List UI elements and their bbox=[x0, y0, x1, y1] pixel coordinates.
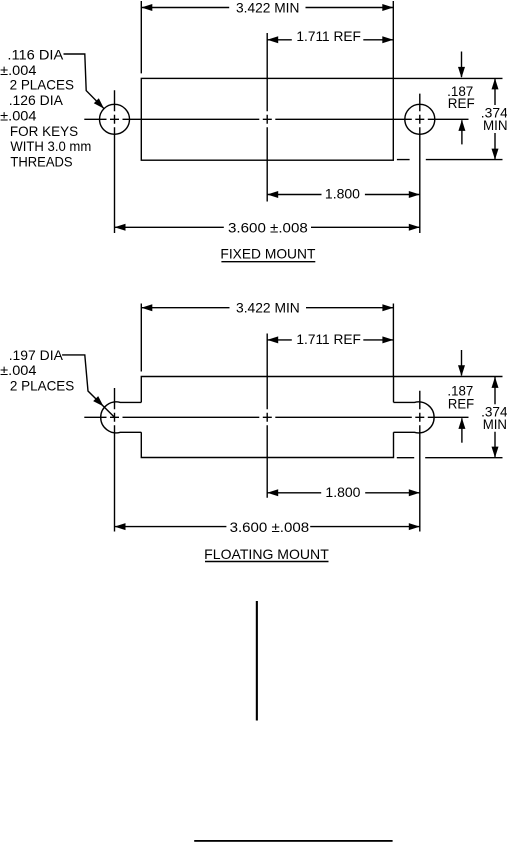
fixed 1.800 dimension line bbox=[267, 194, 420, 196]
svg-text:FOR KEYS: FOR KEYS bbox=[10, 123, 78, 139]
floating mount left slot vertical centerline bbox=[114, 388, 116, 532]
svg-text:FIXED MOUNT: FIXED MOUNT bbox=[220, 246, 315, 262]
floating leader line from .197 DIA note bbox=[62, 355, 114, 417]
floating mount left slot tab bbox=[101, 402, 142, 433]
svg-text:3.600 ±.008: 3.600 ±.008 bbox=[230, 519, 310, 535]
floating .187 arrows bbox=[458, 365, 465, 376]
floating mount right slot tab bbox=[394, 402, 435, 433]
lower separator vertical line bbox=[256, 601, 258, 721]
fixed .187 REF upper arrow stem bbox=[461, 52, 463, 78]
svg-text:MIN: MIN bbox=[483, 117, 507, 133]
floating mount body outline bbox=[141, 377, 393, 458]
floating mount horizontal centerline bbox=[84, 416, 468, 418]
fixed leader line from .116 DIA note bbox=[64, 54, 105, 109]
fixed mount horizontal centerline bbox=[84, 118, 468, 120]
svg-text:1.800: 1.800 bbox=[325, 484, 360, 500]
floating 3.600 arrows bbox=[115, 523, 126, 530]
svg-text:REF: REF bbox=[448, 95, 475, 111]
fixed mount title underline bbox=[221, 261, 315, 263]
floating 3.422 dim extension lines bbox=[141, 304, 393, 377]
fixed 3.422 dim extension lines bbox=[141, 1, 393, 78]
floating 3.422 dimension line bbox=[141, 307, 393, 309]
floating top edge extension line bbox=[394, 376, 503, 378]
fixed 3.422 arrows bbox=[141, 4, 152, 11]
floating 1.711 dimension line bbox=[267, 339, 393, 341]
fixed mount left hole vertical centerline bbox=[114, 90, 116, 233]
floating .187 REF lower arrow stem bbox=[461, 418, 463, 442]
fixed leader arrowhead bbox=[94, 98, 104, 108]
fixed .374 MIN dimension line bbox=[494, 78, 496, 159]
fixed .187 REF lower arrow stem bbox=[461, 120, 463, 144]
floating bottom edge extension line bbox=[397, 457, 503, 459]
svg-text:FLOATING MOUNT: FLOATING MOUNT bbox=[204, 546, 329, 562]
fixed 1.800 arrows bbox=[267, 191, 278, 198]
svg-text:3.422 MIN: 3.422 MIN bbox=[236, 300, 300, 316]
floating .374 arrows bbox=[492, 377, 499, 388]
svg-text:.116 DIA: .116 DIA bbox=[7, 47, 63, 63]
fixed mount left key hole bbox=[100, 104, 130, 134]
fixed mount right hole vertical centerline bbox=[419, 94, 421, 233]
svg-text:±.004: ±.004 bbox=[0, 107, 37, 123]
white gaps behind dimension texts bbox=[224, 1, 507, 534]
floating 3.422 arrows bbox=[141, 304, 152, 311]
svg-text:1.800: 1.800 bbox=[325, 186, 360, 202]
fixed mount right key hole bbox=[405, 104, 435, 134]
floating leader arrowhead bbox=[93, 396, 103, 406]
floating mount title underline bbox=[205, 561, 329, 563]
fixed 3.600 dimension line bbox=[115, 226, 420, 228]
svg-text:.197 DIA: .197 DIA bbox=[9, 347, 64, 363]
svg-text:2 PLACES: 2 PLACES bbox=[10, 77, 74, 93]
fixed 1.711 dimension line bbox=[267, 39, 393, 41]
fixed bottom edge extension line bbox=[397, 159, 503, 161]
svg-text:±.004: ±.004 bbox=[0, 362, 37, 378]
svg-text:2 PLACES: 2 PLACES bbox=[10, 377, 74, 393]
svg-text:3.422 MIN: 3.422 MIN bbox=[236, 0, 299, 16]
floating mount right slot vertical centerline bbox=[419, 391, 421, 532]
svg-text:REF: REF bbox=[448, 396, 474, 412]
arrowheads bbox=[93, 4, 498, 530]
bottom rule line bbox=[194, 840, 392, 842]
fixed .374 arrows bbox=[492, 78, 499, 89]
floating .187 REF upper arrow stem bbox=[461, 350, 463, 375]
fixed mount center vertical centerline bbox=[266, 33, 268, 202]
floating .374 MIN dimension line bbox=[494, 377, 496, 457]
svg-text:THREADS: THREADS bbox=[10, 153, 72, 169]
floating 3.600 dimension line bbox=[115, 526, 420, 528]
floating 1.800 arrows bbox=[267, 489, 278, 496]
fixed 1.711 arrows bbox=[267, 36, 278, 43]
svg-text:3.600 ±.008: 3.600 ±.008 bbox=[228, 220, 308, 236]
floating 1.800 dimension line bbox=[267, 492, 420, 494]
fixed mount body outline bbox=[141, 78, 393, 160]
svg-text:.126 DIA: .126 DIA bbox=[9, 92, 64, 108]
svg-text:1.711 REF: 1.711 REF bbox=[296, 331, 361, 347]
fixed .187 arrows bbox=[458, 67, 465, 78]
floating mount center vertical centerline bbox=[266, 334, 268, 498]
fixed 3.600 arrows bbox=[115, 224, 126, 231]
fixed top edge extension line bbox=[393, 77, 502, 79]
fixed 3.422 dimension line bbox=[141, 7, 393, 9]
svg-text:MIN: MIN bbox=[483, 416, 507, 432]
floating 1.711 arrows bbox=[267, 336, 278, 343]
svg-text:1.711 REF: 1.711 REF bbox=[296, 28, 361, 44]
svg-text:WITH 3.0 mm: WITH 3.0 mm bbox=[10, 138, 91, 154]
